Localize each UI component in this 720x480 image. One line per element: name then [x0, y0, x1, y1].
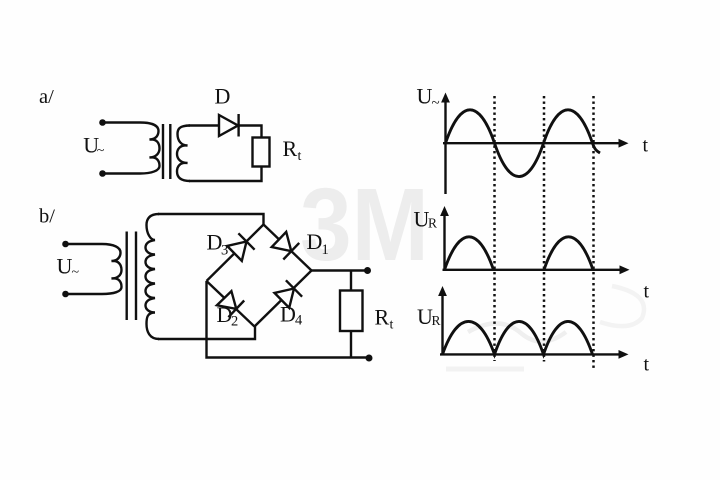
graph2 vertical axis — [443, 214, 445, 270]
wire resistor bottom back to secondary — [189, 167, 262, 182]
transformer Ta core — [163, 124, 170, 179]
graph1 dotted line 2 — [543, 96, 546, 362]
svg-text:1: 1 — [322, 242, 329, 258]
svg-text:D: D — [307, 229, 323, 254]
svg-text:D: D — [280, 302, 296, 327]
graph3 horizontal axis — [440, 353, 619, 355]
svg-text:~: ~ — [72, 265, 80, 280]
wire resistor bottom to bottom rail — [350, 331, 352, 358]
transformer Tb core — [127, 232, 136, 321]
transformer Ta primary winding with input wires — [102, 123, 160, 174]
transformer Tb secondary winding — [146, 214, 160, 339]
graph3 full-wave humps — [443, 321, 593, 354]
terminal dot a bottom — [99, 170, 106, 177]
graph3 vertical axis — [441, 294, 443, 355]
wire top rail to bridge apex — [158, 214, 264, 225]
svg-text:3: 3 — [221, 243, 228, 259]
svg-text:a/: a/ — [39, 86, 54, 108]
wire bridge edge top-left — [207, 225, 264, 282]
svg-text:R: R — [283, 136, 298, 161]
transformer Ta secondary winding — [177, 126, 190, 182]
svg-text:t: t — [390, 318, 394, 333]
diode D2 cathode bar — [228, 301, 244, 318]
wire secondary-top to diode — [189, 124, 220, 126]
diode D4 cathode bar — [286, 280, 302, 296]
svg-text:R: R — [432, 313, 441, 328]
graph2 horizontal axis — [443, 269, 621, 271]
terminal dot a top — [99, 119, 106, 126]
wire bridge edge bottom-left — [207, 281, 255, 327]
svg-text:~: ~ — [432, 96, 440, 112]
wire bottom rail secondary to bridge bottom vertex — [158, 327, 255, 340]
diode D3 — [227, 242, 246, 261]
node dot output bottom — [366, 355, 373, 362]
graph1 dotted line 3 — [592, 96, 595, 368]
wire right vertex to output node — [312, 269, 367, 271]
wire down to resistor (b) — [350, 271, 352, 291]
svg-text:D: D — [217, 302, 233, 327]
svg-text:t: t — [298, 149, 302, 164]
terminal dot b bottom — [62, 291, 69, 298]
graph1 horizontal axis — [443, 142, 619, 144]
graph2 half-wave hump 2 — [544, 237, 593, 270]
svg-text:U: U — [417, 84, 433, 109]
diode D1 cathode bar — [283, 243, 299, 260]
svg-text:t: t — [644, 354, 650, 376]
wire diode to resistor top — [239, 126, 262, 138]
transformer Tb primary winding with input wires — [66, 244, 122, 294]
watermark swirl 1 — [468, 323, 566, 341]
svg-text:3M: 3M — [300, 167, 429, 282]
watermark swirl 2 — [600, 286, 644, 326]
svg-text:~: ~ — [97, 144, 105, 159]
svg-text:D: D — [207, 230, 223, 255]
node dot output top — [364, 267, 371, 274]
svg-text:2: 2 — [231, 314, 238, 330]
svg-text:D: D — [215, 84, 231, 109]
wire left vertex down and bottom rail to output node — [207, 281, 367, 358]
svg-text:U: U — [57, 254, 73, 279]
svg-text:t: t — [643, 135, 649, 157]
svg-text:4: 4 — [295, 313, 303, 329]
diode D2 — [217, 291, 236, 309]
svg-text:b/: b/ — [39, 206, 55, 228]
svg-text:R: R — [428, 216, 437, 231]
diode D — [219, 115, 238, 136]
diode D3 cathode bar — [238, 233, 254, 249]
graph1 vertical axis — [444, 100, 446, 194]
graph2 half-wave hump 1 — [445, 237, 494, 270]
wire bridge edge bottom-right — [255, 271, 312, 327]
diode D cathode bar — [237, 114, 239, 137]
svg-text:R: R — [375, 305, 390, 330]
graph1 sine curve — [446, 110, 601, 177]
diode D1 — [272, 232, 292, 251]
graph1 dotted line 1 — [493, 96, 496, 361]
resistor Rt (a) — [253, 138, 270, 167]
terminal dot b top — [62, 241, 69, 248]
wire bridge edge top-right — [264, 225, 312, 271]
svg-text:t: t — [644, 281, 650, 303]
resistor Rt (b) — [340, 291, 363, 332]
diode D4 — [275, 289, 295, 308]
watermark swirl 3 — [446, 367, 524, 372]
